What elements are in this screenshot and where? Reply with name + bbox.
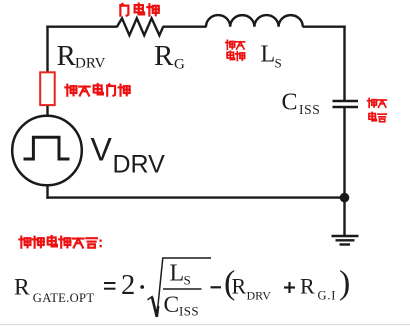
svg-text:S: S: [184, 273, 191, 288]
svg-text:2: 2: [121, 270, 135, 301]
svg-text:R: R: [232, 274, 247, 299]
svg-text:L: L: [261, 42, 276, 68]
resistor R_DRV body (red box): [40, 72, 55, 105]
wire: top rail between R_G and L_S: [163, 26, 207, 28]
wire: junction to ground: [343, 198, 345, 235]
wire: left vertical branch from top rail to source: [46, 26, 48, 117]
red label: driver internal resistance (驱动器内阻): [65, 84, 129, 96]
svg-text:R: R: [154, 40, 174, 72]
svg-text:S: S: [275, 56, 282, 71]
inductor L_S coils: [206, 15, 303, 27]
ground symbol: [332, 235, 359, 237]
svg-text:R: R: [57, 40, 77, 72]
formula: middle dot: [140, 285, 144, 289]
voltage source V_DRV circle: [12, 116, 82, 186]
wire: top rail left segment: [46, 26, 117, 28]
svg-text:ISS: ISS: [299, 102, 320, 117]
red label: input capacitance (输入电容) two lines: [368, 98, 387, 121]
formula: plus: [284, 286, 295, 288]
svg-text:V: V: [91, 132, 113, 168]
svg-text:C: C: [164, 292, 180, 318]
svg-text:G.I: G.I: [318, 289, 337, 303]
junction node: [340, 193, 350, 203]
svg-text:DRV: DRV: [247, 289, 272, 303]
svg-text:DRV: DRV: [113, 151, 166, 179]
svg-text:L: L: [170, 261, 185, 287]
formula: radical sign: [148, 258, 212, 317]
formula: minus: [211, 286, 222, 288]
bottom rail wire: [46, 196, 344, 198]
faint bottom edge line: [0, 324, 410, 326]
resistor R_G zigzag: [117, 18, 163, 35]
svg-text:G: G: [174, 57, 185, 73]
red label: optimized resistance formula heading (优化电阻公式:): [19, 236, 101, 248]
wire: top rail right segment: [303, 26, 346, 28]
svg-text:C: C: [282, 90, 298, 116]
svg-text:ISS: ISS: [179, 304, 199, 319]
svg-text:DRV: DRV: [75, 56, 106, 72]
red label: source inductance (源边感抗) two lines: [226, 40, 245, 60]
wire: source bottom to bottom rail: [46, 184, 48, 199]
formula: equals: [104, 282, 116, 284]
formula: fraction bar: [163, 288, 202, 290]
svg-text:R: R: [14, 275, 30, 301]
wire: right vertical from capacitor to junction: [343, 108, 345, 198]
red label: gate resistance (门电阻): [120, 4, 158, 16]
wire: right vertical down to capacitor: [343, 26, 345, 101]
svg-text:GATE.OPT: GATE.OPT: [33, 291, 95, 305]
svg-text:R: R: [300, 274, 315, 299]
svg-text:): ): [339, 265, 350, 302]
pulse waveform symbol: [24, 137, 70, 159]
capacitor C_ISS plates: [333, 100, 359, 102]
